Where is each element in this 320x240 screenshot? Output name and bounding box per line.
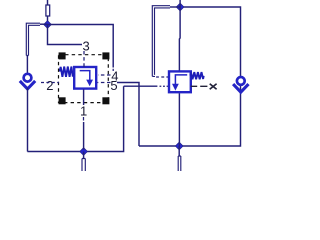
node B junction dot bottom left xyxy=(80,148,88,156)
selection rectangle dashed xyxy=(59,55,109,103)
svg-text:2: 2 xyxy=(46,78,53,93)
wire node B down xyxy=(83,152,85,159)
wire bottom left loop xyxy=(27,86,123,151)
node A junction dot xyxy=(44,21,52,29)
pilot dashed into right valve lower left port xyxy=(160,85,169,87)
wire top right vertical through node C xyxy=(178,0,181,71)
drain dashed line with X plug xyxy=(191,85,208,87)
wire right valve bottom to node D xyxy=(178,93,180,146)
hose capsule H3 bottom left xyxy=(82,159,85,172)
selection handle BL xyxy=(59,97,66,104)
wire node A down to port3 branch xyxy=(48,25,83,45)
svg-text:5: 5 xyxy=(110,78,117,93)
port 2 dashed lead xyxy=(41,82,59,84)
pilot dashed from hose to right valve upper left port xyxy=(156,76,168,78)
X plug symbol xyxy=(210,84,217,90)
wire hose to check valve xyxy=(26,56,28,76)
hose capsule H5 bottom right xyxy=(178,156,181,172)
port 1 wire solid above label xyxy=(83,89,85,105)
check valve CV2 ball xyxy=(237,77,245,85)
wire top feed left xyxy=(47,0,49,22)
wire valve V1 top port dashes handled, top solid above xyxy=(83,66,85,68)
hose capsule H2 left bend xyxy=(26,23,40,55)
node C junction dot top right xyxy=(176,3,184,11)
wire pilot line to right valve xyxy=(124,85,158,87)
port 4 dashed leads xyxy=(98,69,113,75)
valve V1 internal arrow xyxy=(80,71,90,80)
wire bottom right loop xyxy=(139,7,241,146)
valve V2 body right xyxy=(169,71,191,92)
check valve CV2 seat xyxy=(233,84,248,92)
spring S1 valve V1 xyxy=(59,67,73,77)
port 3 dashed lead xyxy=(83,51,85,66)
hose capsule H1 top left xyxy=(46,5,50,16)
selection handle TR xyxy=(102,52,109,59)
valve V2 internal arrow xyxy=(175,75,187,84)
node D junction dot bottom right xyxy=(175,142,183,150)
wire check valve CV1 to bottom loop xyxy=(27,88,29,152)
hose capsule H4 top right bend xyxy=(152,6,170,77)
port 5 dashed lead xyxy=(98,82,111,84)
spring S2 valve V2 xyxy=(190,72,203,79)
wire node A left stub xyxy=(40,23,48,25)
selection handle TL xyxy=(59,52,66,59)
valve V1 body center xyxy=(74,67,96,89)
check valve CV1 ball xyxy=(24,74,32,82)
wire node A to right corner xyxy=(48,25,114,68)
port 1 dashed below label then wire to node B xyxy=(83,117,85,121)
check valve CV1 seat xyxy=(20,81,35,89)
wire node D down xyxy=(178,146,180,156)
svg-text:1: 1 xyxy=(80,103,87,118)
wire port5 to bottom right loop xyxy=(117,83,139,147)
selection handle BR xyxy=(102,97,109,104)
wire node C left stub xyxy=(170,6,180,8)
